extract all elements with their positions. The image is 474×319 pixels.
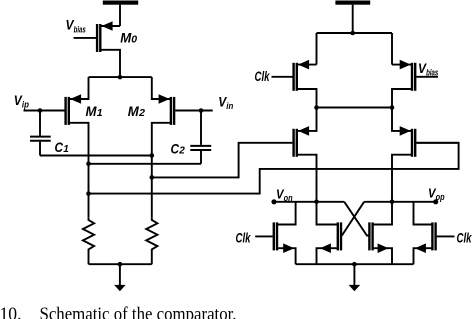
ground (right) [349, 264, 361, 291]
node P1 drain junction [314, 105, 319, 110]
svg-text:bias: bias [426, 68, 438, 79]
label Vin [218, 94, 233, 112]
label Von [276, 187, 293, 203]
label Vip [14, 93, 29, 111]
transistor P2 (PMOS bias, right) [392, 60, 438, 108]
svg-text:0: 0 [131, 34, 137, 46]
capacitor C2 [190, 111, 211, 164]
wire C2 bottom to M1 drain node [89, 163, 202, 165]
transistor N4 (NMOS clock switch, right) [414, 202, 455, 264]
label C2 [171, 142, 186, 157]
wire VDD to latch top bus [352, 5, 354, 33]
node Vop terminal [433, 199, 438, 204]
wire cross-couple Vop rail to N2 gate [342, 202, 364, 236]
capacitor C1 [30, 111, 51, 156]
wire M2 drain to latch left input gate [152, 143, 293, 178]
svg-text:on: on [284, 193, 293, 203]
resistor R2 (right load) [146, 217, 157, 264]
wire resistor bottoms [89, 263, 152, 265]
node M1 drain output tap [86, 191, 91, 196]
node Vin / C2 junction [199, 108, 204, 113]
wire bus to P2 source [391, 33, 393, 65]
transistor P3 (PMOS latch input, left) [294, 108, 317, 202]
transistor N1 (NMOS clock switch, left) [255, 202, 295, 264]
supply rail VDD (left) [103, 1, 138, 5]
node P3/N2 drain on Von rail [314, 200, 319, 205]
svg-text:Clk: Clk [236, 231, 252, 246]
transistor N2 (NMOS cross-coupled, left) [317, 202, 342, 264]
ground (left) [114, 264, 126, 291]
label Vbias (P2 gate) [418, 61, 438, 79]
wire C1 bottom to M2 drain node [40, 155, 152, 157]
svg-text:bias: bias [74, 25, 86, 36]
node resistor common [118, 262, 123, 267]
node P2 drain junction [390, 105, 395, 110]
svg-text:M: M [120, 31, 131, 46]
svg-text:M: M [86, 104, 97, 119]
supply rail VDD (right) [335, 1, 370, 5]
svg-text:10.: 10. [0, 305, 22, 319]
node Vip / C1 junction [38, 108, 43, 113]
transistor M0 (PMOS, bias current source) [74, 21, 120, 77]
node tail (junction dot M0 drain / diff-pair sources) [118, 75, 123, 80]
label Vop [428, 186, 445, 202]
node Von terminal [271, 199, 276, 204]
transistor P1 (PMOS clock switch, left) [272, 60, 317, 108]
transistor P4 (PMOS latch input, right) [392, 108, 459, 202]
svg-text:Schematic of the comparator.: Schematic of the comparator. [40, 305, 237, 319]
wire bus to P1 source [316, 33, 318, 65]
svg-text:M: M [128, 104, 139, 119]
node C1 to M2-drain junction [150, 153, 155, 158]
label Vbias (M0 gate) [66, 18, 86, 36]
node latch ground junction [352, 262, 357, 267]
transistor N3 (NMOS cross-coupled, right) [369, 202, 392, 264]
svg-text:1: 1 [63, 144, 69, 155]
wire Von output rail [274, 201, 344, 203]
resistor R1 (left load) [83, 217, 94, 264]
node P4/N3 drain on Vop rail [390, 200, 395, 205]
wire tail node between M1 and M2 sources [89, 76, 152, 78]
wire cross-couple Von rail to N3 gate [344, 202, 369, 236]
wire VDD to M0 source [119, 5, 121, 26]
transistor M1 (PMOS, input Vip) [24, 77, 89, 217]
wire latch top bus [317, 32, 393, 34]
transistor M2 (PMOS, input Vin) [152, 77, 213, 217]
svg-text:in: in [226, 101, 233, 112]
label M1 [86, 104, 103, 119]
label M0 [120, 31, 137, 46]
node M2 drain output tap [150, 175, 155, 180]
wire Vop output rail [364, 201, 436, 203]
wire latch middle bus [317, 107, 393, 109]
svg-text:ip: ip [22, 100, 29, 111]
node latch supply junction [350, 31, 355, 36]
svg-text:Clk: Clk [457, 231, 473, 246]
wire latch bottom rail [296, 263, 414, 265]
svg-text:2: 2 [178, 146, 185, 157]
svg-text:Clk: Clk [255, 69, 271, 84]
svg-text:2: 2 [138, 107, 145, 119]
svg-text:1: 1 [97, 107, 103, 119]
node C2 to M1-drain junction [86, 162, 91, 167]
svg-text:C: C [55, 140, 64, 155]
label C1 [55, 140, 70, 155]
svg-text:C: C [171, 142, 180, 157]
wire M1 drain to latch right input gate [89, 143, 459, 194]
svg-text:op: op [436, 192, 445, 202]
label M2 [128, 104, 145, 119]
